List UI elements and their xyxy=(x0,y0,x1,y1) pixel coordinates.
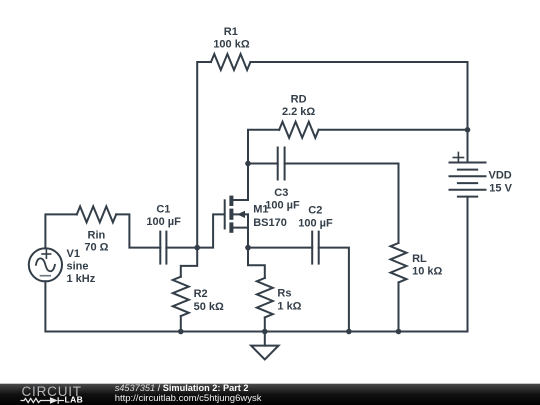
svg-text:Rs: Rs xyxy=(277,288,291,300)
svg-text:1 kΩ: 1 kΩ xyxy=(277,301,301,313)
svg-text:R1: R1 xyxy=(224,26,238,38)
svg-text:sine: sine xyxy=(67,261,89,273)
svg-text:10 kΩ: 10 kΩ xyxy=(412,266,442,278)
svg-text:RD: RD xyxy=(291,93,307,105)
svg-text:100 kΩ: 100 kΩ xyxy=(213,38,250,50)
svg-text:C3: C3 xyxy=(274,187,288,199)
svg-text:LAB: LAB xyxy=(65,395,84,405)
svg-text:50 kΩ: 50 kΩ xyxy=(194,301,224,313)
svg-text:RL: RL xyxy=(412,253,427,265)
svg-text:C2: C2 xyxy=(308,205,322,217)
svg-text:http://circuitlab.com/c5htjung: http://circuitlab.com/c5htjung6wysk xyxy=(115,393,262,404)
svg-text:R2: R2 xyxy=(194,288,208,300)
svg-text:Rin: Rin xyxy=(88,229,106,241)
svg-text:s4537351 / Simulation 2: Part: s4537351 / Simulation 2: Part 2 xyxy=(115,383,249,393)
svg-text:1 kHz: 1 kHz xyxy=(67,273,96,285)
svg-text:VDD: VDD xyxy=(489,169,512,181)
svg-text:V1: V1 xyxy=(67,248,80,260)
svg-text:2.2 kΩ: 2.2 kΩ xyxy=(282,106,315,118)
svg-text:C1: C1 xyxy=(156,204,170,216)
svg-text:100 µF: 100 µF xyxy=(265,200,300,212)
svg-text:100 µF: 100 µF xyxy=(298,218,333,230)
svg-text:15 V: 15 V xyxy=(489,183,512,195)
svg-text:70 Ω: 70 Ω xyxy=(84,241,108,253)
svg-text:BS170: BS170 xyxy=(253,217,287,229)
svg-text:100 µF: 100 µF xyxy=(146,216,181,228)
